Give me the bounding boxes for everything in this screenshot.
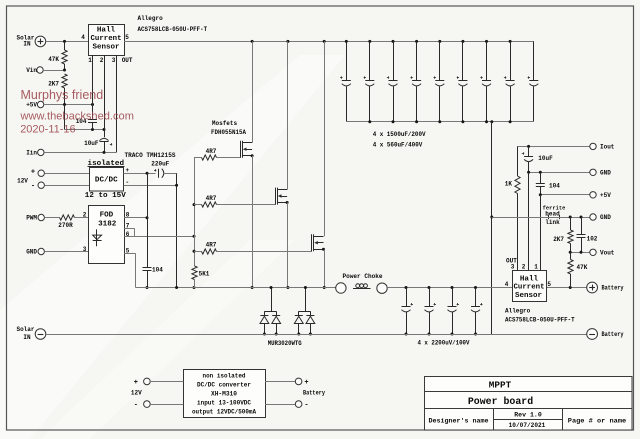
wire U2 -out rail [124,173,179,287]
diode pair D3 D4 [294,286,314,336]
wire choke to Hall sensor U4 pin4 [387,286,512,289]
wire U1 pin1 [92,55,94,105]
svg-text:Hall: Hall [520,275,539,283]
svg-text:non isolated: non isolated [203,372,246,379]
svg-text:2020-11-16: 2020-11-16 [20,124,75,136]
svg-text:Power Choke: Power Choke [343,273,383,280]
svg-text:ACS758LCB-050U-PFF-T: ACS758LCB-050U-PFF-T [138,26,208,33]
svg-text:link: link [545,219,560,226]
svg-text:47K: 47K [48,56,59,63]
svg-text:output 12VDC/500mA: output 12VDC/500mA [192,409,256,416]
node Battery negative terminal [587,329,624,340]
svg-text:+5V: +5V [26,102,37,109]
label 4 x 2200uV/100V [418,340,470,347]
diode pair D1 D2 [260,286,281,336]
wire U1 pin2 [104,55,106,137]
node 12V input terminals [17,169,89,191]
svg-text:Battery: Battery [602,331,624,338]
svg-text:4 x 1500uF/200V: 4 x 1500uF/200V [373,131,426,138]
svg-text:Current: Current [514,284,545,292]
wire U3 pin8 to +15V rail [124,216,148,219]
title block rev cell [514,411,542,418]
svg-text:Current: Current [91,35,122,43]
title block designer cell [429,418,489,425]
svg-text:Allegro: Allegro [505,308,531,315]
title block text Power board [468,396,533,408]
node +5V terminal right [590,192,611,199]
svg-text:5: 5 [547,281,551,288]
wire U3 pins 6 and 7 tied [124,229,195,238]
svg-text:12 to 15V: 12 to 15V [85,192,126,200]
transistor Q1 mosfet [241,141,254,158]
transistor Q3 mosfet [312,234,326,251]
U2 output polarity marks [125,167,129,186]
node Battery positive terminal [587,282,624,293]
transistor Q2 mosfet [276,188,289,205]
svg-text:+: + [31,169,35,177]
svg-text:www.thebackshed.com: www.thebackshed.com [20,111,134,123]
hall current sensor U1 box [89,25,125,56]
wire Iout net [517,145,590,148]
svg-text:1: 1 [88,57,92,64]
svg-text:4 x 560uF/400V: 4 x 560uF/400V [373,141,423,148]
node Solar IN negative terminal [16,326,45,341]
svg-text:TRACO TMH1215S: TRACO TMH1215S [125,152,176,159]
node GND terminal [26,248,88,255]
capacitor 104 (U1 decoupling) [76,105,97,130]
svg-text:2: 2 [522,263,526,270]
U3 pin labels [83,211,130,254]
svg-text:ACS758LCB-050U-PFF-T: ACS758LCB-050U-PFF-T [505,317,575,324]
svg-text:+5V: +5V [600,192,611,199]
wire +5V column down to GND row [65,105,106,132]
resistor 4R7 gate Q2 [194,195,276,207]
svg-text:12V: 12V [17,177,28,184]
svg-text:102: 102 [587,235,598,242]
ferrite bead link [543,205,566,226]
wire U4 pin5 to Battery+ [546,286,587,289]
svg-text:Iin: Iin [26,150,37,157]
hall current sensor U4 box [513,271,547,302]
node Vout terminal [590,249,615,256]
svg-text:10/07/2021: 10/07/2021 [509,422,546,429]
wire Q3 drain to top bus [324,41,326,236]
inductor L1 power choke [336,273,388,294]
resistor 47K divider [568,252,588,287]
wire Q3 source to switch bus [323,249,326,289]
U1 pin labels [81,34,133,64]
svg-text:GND: GND [600,214,611,221]
svg-text:220uF: 220uF [151,160,169,167]
svg-text:-: - [134,402,138,410]
wire switch bus left [136,286,336,289]
capacitor 104 (driver supply) [143,173,164,289]
wire GND net upper [527,171,590,174]
svg-text:Hall: Hall [97,27,116,35]
svg-text:1K: 1K [505,181,513,188]
svg-text:-: - [304,402,308,410]
svg-text:104: 104 [549,183,560,190]
wire U4 pin1 [540,195,542,270]
svg-text:Allegro: Allegro [138,15,164,22]
svg-text:Solar: Solar [16,326,34,333]
svg-text:2K7: 2K7 [553,236,564,243]
svg-text:Iout: Iout [600,144,615,151]
svg-text:GND: GND [600,170,611,177]
wire negative bus [46,334,587,336]
resistor 5K1 pulldown [192,266,210,288]
capacitor 10uF (U1 out filter) [84,138,112,152]
svg-text:+: + [304,379,308,387]
capacitor 104 on 5V [536,172,560,195]
title block page cell [568,418,627,425]
wire U3 pin5 to source bus [124,253,135,287]
node Battery aux terminals [265,378,325,410]
svg-text:3: 3 [511,263,515,270]
capacitor 102 [577,217,598,252]
svg-text:Vout: Vout [600,250,615,257]
wire Q1 drain to top bus [252,41,254,142]
svg-text:GND: GND [26,249,37,256]
resistor 1K [505,146,520,270]
resistor 2K7 upper [48,74,67,105]
U3 internal LED [93,229,102,246]
node 12V aux terminals [131,378,183,410]
svg-text:3: 3 [112,57,116,64]
label TRACO TMH1215S [125,152,176,159]
svg-text:104: 104 [152,267,163,274]
svg-text:4R7: 4R7 [206,195,217,202]
wire capacitor bank bottom bus [346,120,534,123]
svg-text:IN: IN [23,334,31,341]
svg-text:FOD: FOD [100,212,114,220]
U4 pin labels [505,257,552,288]
svg-text:MPPT: MPPT [489,380,512,391]
watermark text [20,88,134,136]
svg-text:OUT: OUT [122,57,133,64]
capacitor bank 4x1500uF + 4x560uF [340,41,538,121]
title block date cell [509,422,546,429]
svg-text:3182: 3182 [98,221,117,229]
gate driver U3 FOD 3182 box [89,206,125,264]
dc-dc converter U2 isolated box [85,160,126,200]
node Iout terminal [590,143,615,150]
wire Q2 source to switch bus [286,203,289,290]
svg-text:IN: IN [23,41,31,48]
resistor 4R7 gate Q3 [194,242,312,255]
svg-text:PWM: PWM [26,215,37,222]
svg-text:-: - [31,183,35,191]
node GND terminal lower [590,214,611,221]
label MUR3020WTG [268,340,302,347]
capacitor 220uF [151,160,176,177]
svg-text:10uF: 10uF [538,155,553,162]
title block frame [424,377,632,431]
svg-text:47K: 47K [577,264,588,271]
svg-text:270R: 270R [58,222,73,229]
resistor 270R [58,215,88,229]
resistor 2K7 divider [553,217,573,252]
svg-text:4R7: 4R7 [206,242,217,249]
wire U4 pin2 [528,172,530,270]
svg-text:Vin: Vin [26,67,37,74]
wire Q2 drain to top bus [287,41,289,189]
wire Vout net [569,251,590,254]
label Allegro ACS758 U1 [138,15,208,33]
label capacitor bank values [373,131,426,148]
svg-text:input 13-100VDC: input 13-100VDC [197,399,251,406]
svg-text:Power board: Power board [468,396,533,408]
svg-text:+: + [125,167,129,174]
svg-text:Sensor: Sensor [515,292,542,300]
node +5V terminal [26,101,94,108]
node Vin terminal [26,67,66,74]
wire +5V net [539,193,590,196]
node PWM terminal [26,214,59,221]
label Mosfets FDH055N15A [211,120,246,136]
svg-text:5: 5 [125,34,129,41]
svg-text:XH-M310: XH-M310 [211,390,237,397]
svg-text:Battery: Battery [602,285,624,292]
node GND terminal upper [590,169,611,176]
svg-text:Sensor: Sensor [93,43,120,51]
svg-text:2K7: 2K7 [48,80,59,87]
capacitor 10uF output [522,146,553,172]
resistor 4R7 gate Q1 [194,148,241,160]
svg-text:DC/DC: DC/DC [95,177,118,185]
wire U2 +15V output [124,172,156,175]
svg-text:DC/DC converter: DC/DC converter [197,382,251,389]
wire U1 pin3 OUT [116,55,118,152]
svg-text:2: 2 [100,57,104,64]
svg-text:Battery: Battery [303,389,325,396]
svg-text:FDH055N15A: FDH055N15A [211,129,246,136]
svg-text:Designer's name: Designer's name [429,418,489,425]
svg-text:5K1: 5K1 [199,271,210,278]
svg-text:4R7: 4R7 [206,148,217,155]
svg-text:-: - [125,179,129,186]
svg-text:Rev 1.0: Rev 1.0 [514,411,542,418]
node Iin terminal [26,149,116,156]
svg-text:2: 2 [83,211,87,218]
svg-text:10uF: 10uF [84,140,99,147]
wire Solar+ to Hall sensor pin 4 [46,40,88,43]
svg-text:Mosfets: Mosfets [212,120,238,127]
wire cap bank negative drop [490,122,493,334]
wire Q1 source to switch bus [251,156,254,289]
node Solar IN positive terminal [16,35,45,48]
capacitor group 4x2200uF/100V [402,288,483,336]
svg-text:1: 1 [534,263,538,270]
wire gate feed column [193,158,196,289]
svg-text:bead: bead [545,210,560,217]
svg-text:12V: 12V [131,389,142,396]
wire GND net lower (bead) [492,216,590,219]
svg-text:+: + [134,379,138,387]
svg-text:MUR3020WTG: MUR3020WTG [268,340,302,347]
svg-text:Page # or name: Page # or name [568,418,627,425]
svg-text:4: 4 [81,34,85,41]
label Allegro ACS758 U4 [505,308,575,324]
svg-text:4: 4 [505,281,509,288]
resistor 47K upper [48,41,67,70]
dc-dc converter U5 XH-M310 box [184,370,266,418]
title block text MPPT [489,380,512,391]
wire top bus from U1 pin5 to capacitor bank [124,40,534,43]
svg-text:Murphys friend: Murphys friend [21,88,104,102]
svg-text:4 x 2200uV/100V: 4 x 2200uV/100V [418,340,470,347]
